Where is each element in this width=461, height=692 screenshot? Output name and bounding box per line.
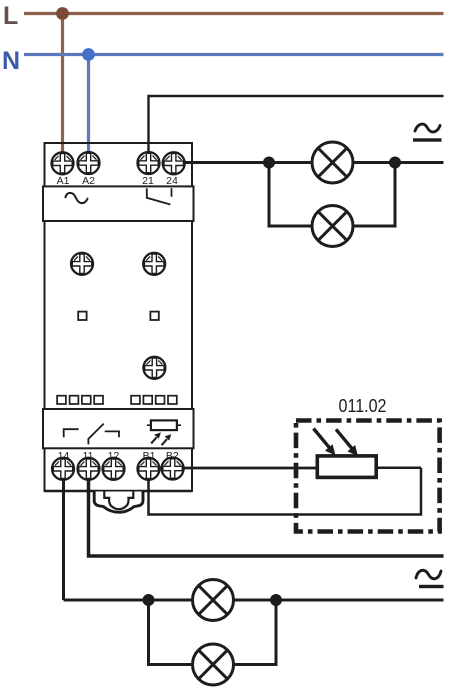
- coil AC symbol: [65, 193, 87, 203]
- svg-text:21: 21: [142, 175, 154, 187]
- sensor box dash-dot frame: [296, 421, 440, 532]
- screw S2: [143, 253, 165, 275]
- svg-text:A1: A1: [57, 175, 70, 187]
- lamp E3: [193, 580, 234, 621]
- contact 24 stub symbol: [171, 188, 173, 197]
- vent squares right group: [131, 396, 177, 404]
- terminal 24: [163, 152, 185, 174]
- wire N rail: [24, 53, 444, 56]
- relay upper symbol band: [43, 186, 194, 221]
- wire sensor right lead: [376, 467, 421, 470]
- wire 11 drop and run: [89, 474, 444, 556]
- terminal A1: [52, 152, 74, 174]
- node N junction: [82, 48, 95, 61]
- wire lamp circuit 2: [64, 599, 444, 602]
- wire B2 to sensor: [178, 467, 317, 470]
- relay bottom edge: [45, 490, 193, 493]
- photoresistor body: [317, 456, 376, 478]
- terminal B2: [162, 458, 184, 480]
- AC source symbol bottom: [416, 570, 444, 588]
- svg-text:L: L: [3, 2, 18, 30]
- screw S1: [71, 253, 93, 275]
- wire A2 stub: [87, 144, 90, 158]
- contact 21-24 symbol: [147, 188, 171, 204]
- contact 12 symbol: [105, 431, 119, 437]
- light arrow 1: [314, 429, 336, 456]
- wire lamp2 parallel branch: [149, 600, 277, 665]
- light arrow 2: [336, 429, 358, 456]
- lamp E1: [312, 142, 353, 183]
- svg-text:011.02: 011.02: [339, 396, 387, 416]
- terminal B1: [138, 458, 160, 480]
- relay lower symbol band: [43, 409, 194, 448]
- wire lamp1 parallel branch: [269, 163, 395, 227]
- screw S3: [143, 357, 165, 379]
- terminal 14: [52, 458, 74, 480]
- wire 21 stub: [147, 144, 149, 158]
- DIN clip inner tab: [104, 492, 133, 510]
- relay body outline: [45, 143, 193, 491]
- AC source symbol top: [413, 124, 442, 142]
- wire lamp circuit 1: [183, 161, 444, 164]
- node lamp2 left: [143, 594, 155, 606]
- wire 24 stub: [178, 161, 192, 164]
- lamp E2: [312, 206, 353, 247]
- wire A1 stub: [61, 144, 64, 158]
- indicator square left: [78, 312, 86, 320]
- node lamp1 left: [263, 157, 275, 169]
- node L junction: [56, 7, 69, 20]
- wire 14 drop: [62, 474, 65, 600]
- node lamp2 right: [270, 594, 282, 606]
- indicator square right: [150, 312, 158, 320]
- wire L drop to A1: [61, 14, 64, 156]
- svg-text:24: 24: [166, 175, 178, 187]
- node lamp1 right: [389, 157, 401, 169]
- wire B1 drop and return: [149, 468, 422, 515]
- contact 11 arm symbol: [88, 424, 103, 445]
- wire L rail: [24, 12, 444, 15]
- terminal A2: [78, 152, 100, 174]
- svg-text:N: N: [2, 47, 20, 75]
- lamp E4: [193, 644, 234, 685]
- terminal 12: [103, 458, 125, 480]
- wire N drop to A2: [87, 55, 90, 156]
- contact 14 symbol: [64, 429, 79, 437]
- terminal 21: [138, 152, 160, 174]
- wire 21 feed top: [149, 96, 444, 153]
- vent squares left group: [57, 396, 103, 404]
- LDR small symbol: [147, 420, 181, 445]
- svg-text:A2: A2: [82, 175, 95, 187]
- DIN clip outer: [94, 492, 143, 513]
- terminal 11: [78, 458, 100, 480]
